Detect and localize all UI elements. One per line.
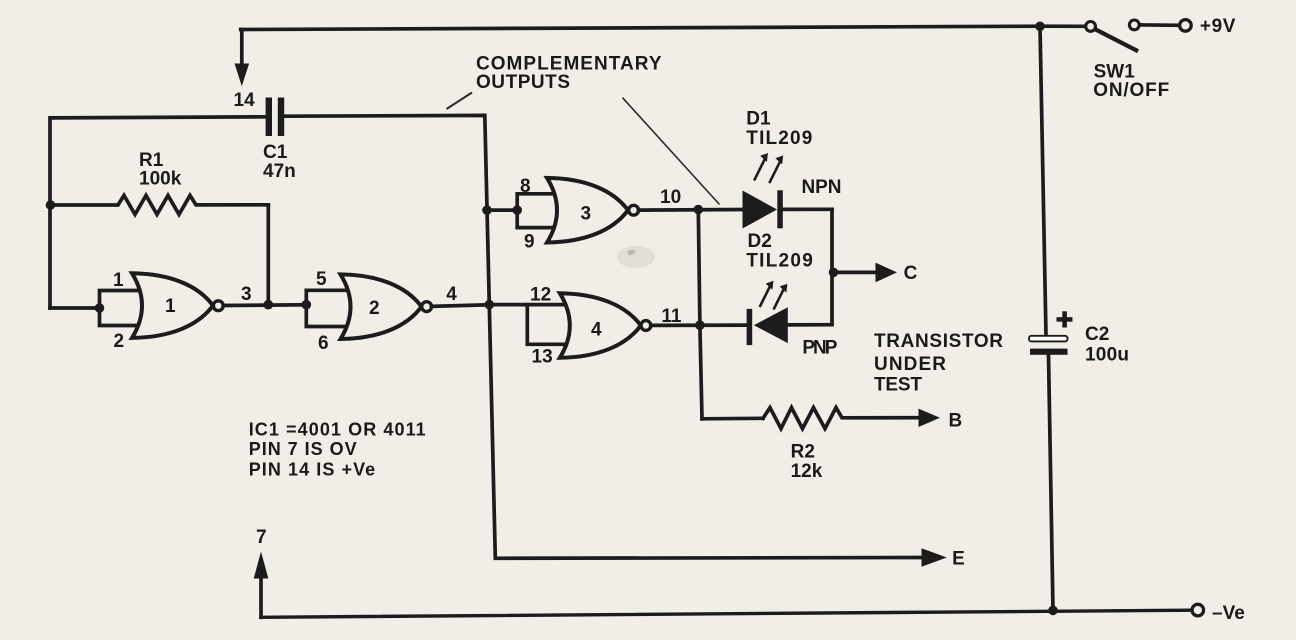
wire node11 down to R2: [702, 416, 763, 420]
svg-text:E: E: [952, 549, 965, 570]
svg-text:TRANSISTOR: TRANSISTOR: [874, 331, 1003, 352]
wire top +9V rail: [241, 26, 1086, 29]
svg-text:C1: C1: [263, 142, 288, 163]
wire node10 to node11 vertical: [698, 210, 702, 419]
wire D1 to right loop: [783, 207, 832, 211]
resistor R1: [51, 195, 269, 214]
switch SW1: [1086, 22, 1096, 32]
svg-text:D2: D2: [748, 231, 772, 252]
wire right vertical upper: [1040, 26, 1046, 335]
svg-text:3: 3: [581, 204, 592, 225]
gate U1b input bracket: [306, 290, 345, 326]
capacitor C2: [1029, 336, 1068, 342]
svg-text:–Ve: –Ve: [1212, 603, 1245, 624]
svg-text:14: 14: [234, 90, 256, 111]
junction node 10: [694, 205, 704, 215]
svg-text:NPN: NPN: [802, 177, 842, 198]
wire gate4 output to D2: [651, 323, 747, 327]
junction node 3: [264, 300, 274, 310]
LED D2: [747, 309, 753, 345]
LED D2 emission arrows: [760, 285, 784, 308]
svg-text:C2: C2: [1085, 324, 1109, 345]
svg-text:PNP: PNP: [802, 338, 837, 359]
junction gate1 input: [95, 303, 105, 313]
svg-text:1: 1: [113, 270, 124, 291]
junction gate3 feed left: [482, 205, 492, 215]
junction gate3 bracket: [512, 205, 522, 215]
svg-text:PIN 7 IS OV: PIN 7 IS OV: [249, 439, 357, 459]
svg-text:B: B: [949, 410, 963, 431]
wire right loop vertical: [830, 209, 834, 324]
gate U1a input bracket: [100, 291, 138, 326]
wire node 3: [223, 303, 306, 307]
wire gate3 feed: [487, 208, 517, 212]
svg-text:13: 13: [532, 347, 553, 368]
svg-text:2: 2: [114, 331, 125, 352]
svg-text:1: 1: [165, 296, 176, 317]
svg-text:7: 7: [256, 527, 267, 548]
pin 7 arrow: [259, 579, 263, 618]
wire C1 right to main vertical down to E corner: [284, 115, 922, 558]
svg-text:C: C: [904, 263, 918, 284]
svg-text:100k: 100k: [139, 169, 182, 190]
label IC1 note: [249, 420, 426, 480]
svg-text:TEST: TEST: [874, 374, 922, 395]
svg-text:ON/OFF: ON/OFF: [1093, 80, 1169, 101]
arrow E head: [922, 548, 947, 567]
gate 2 body: [341, 274, 422, 339]
terminal -Ve: [1192, 604, 1204, 616]
pin 14 arrow: [240, 30, 244, 65]
wire gate3 output to D1: [639, 208, 743, 212]
svg-text:12: 12: [530, 285, 551, 306]
annotation line to C1 wire: [447, 93, 473, 110]
annotation line to D1: [623, 98, 720, 205]
wire bottom rail: [261, 610, 1192, 617]
junction bottom rail: [1048, 606, 1058, 616]
resistor R2: [763, 408, 920, 429]
svg-text:IC1 =4001 OR 4011: IC1 =4001 OR 4011: [249, 420, 426, 440]
op-amp gate 1 body: [132, 273, 213, 338]
svg-text:11: 11: [661, 306, 682, 327]
arrow B head: [919, 409, 941, 427]
capacitor C1: [266, 98, 272, 137]
wire node 4: [432, 305, 489, 307]
svg-text:3: 3: [241, 284, 252, 305]
svg-text:100u: 100u: [1085, 345, 1129, 366]
junction R1 left: [46, 200, 56, 210]
wire R1 down to node 3: [266, 205, 270, 305]
svg-text:+9V: +9V: [1200, 16, 1236, 37]
svg-text:2: 2: [369, 298, 380, 319]
svg-text:10: 10: [660, 187, 681, 208]
junction node 11: [695, 320, 705, 330]
wire gate1 input feed: [50, 306, 100, 310]
svg-text:12k: 12k: [791, 461, 823, 482]
svg-text:6: 6: [318, 333, 329, 354]
svg-text:8: 8: [520, 176, 531, 197]
junction node 4: [485, 300, 495, 310]
svg-text:47n: 47n: [263, 161, 296, 182]
junction gate2 input: [302, 300, 312, 310]
arrow C: [834, 271, 878, 275]
svg-text:9: 9: [524, 232, 535, 253]
wire right vertical lower: [1049, 355, 1054, 611]
svg-text:4: 4: [446, 284, 457, 305]
junction C tap: [829, 268, 839, 278]
svg-text:4: 4: [591, 320, 602, 341]
wire C1 left: [50, 117, 266, 308]
LED D1 emission arrows: [755, 159, 781, 182]
svg-text:PIN 14 IS +Ve: PIN 14 IS +Ve: [249, 459, 376, 479]
svg-text:TIL209: TIL209: [746, 250, 813, 271]
svg-text:R2: R2: [791, 442, 815, 463]
gate U1c input bracket: [517, 194, 552, 228]
svg-text:D1: D1: [746, 109, 771, 130]
scan artifacts (decorative): [617, 246, 655, 268]
svg-text:OUTPUTS: OUTPUTS: [476, 72, 570, 93]
gate 3 body: [547, 178, 628, 243]
svg-text:5: 5: [316, 269, 327, 290]
gate 4 body: [560, 293, 641, 358]
gate U1d input bracket: [527, 305, 566, 345]
svg-text:TIL209: TIL209: [746, 128, 812, 149]
wire D2 to right loop: [788, 323, 832, 327]
junction top right: [1035, 22, 1045, 32]
gate U1d pin12 wire: [489, 303, 565, 307]
svg-text:UNDER: UNDER: [874, 354, 946, 375]
LED D1: [743, 191, 778, 229]
